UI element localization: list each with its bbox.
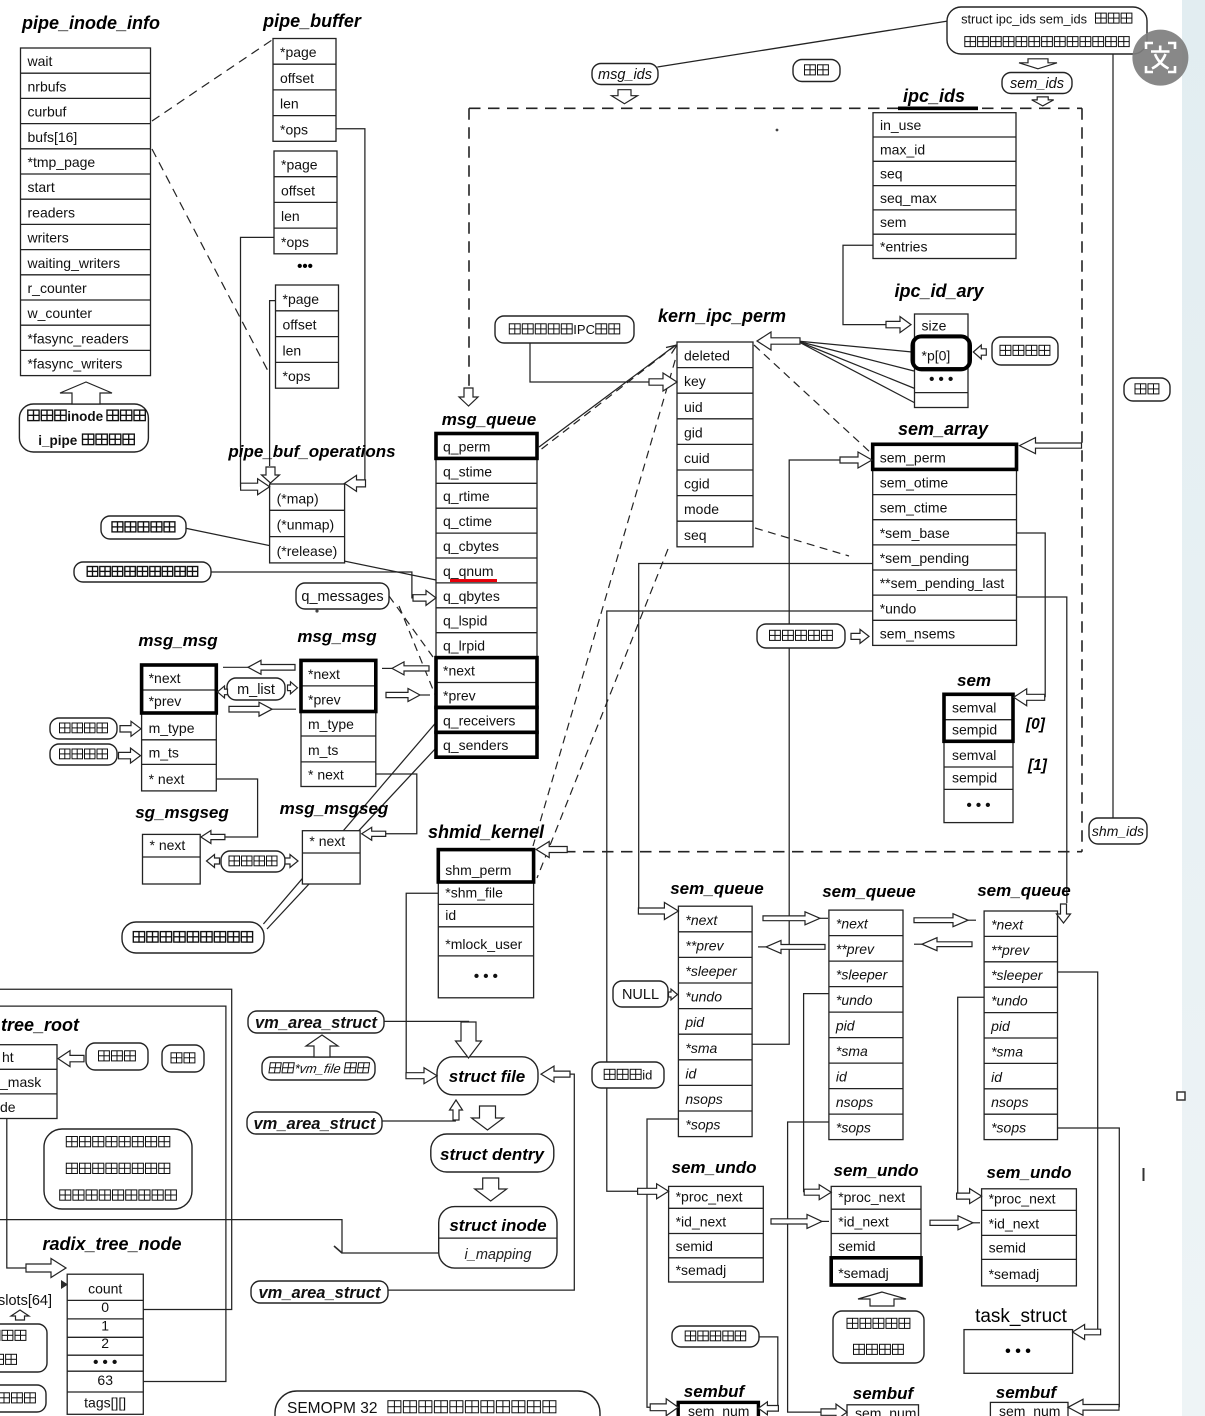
svg-text:q_qnum: q_qnum: [443, 563, 494, 579]
svg-text:kern_ipc_perm: kern_ipc_perm: [658, 306, 786, 326]
bubble SEMOPM note: [275, 1391, 600, 1416]
wire msg_msg2 next to msg_msgseg: [376, 774, 417, 834]
svg-text:offset: offset: [283, 317, 317, 333]
svg-text:id: id: [685, 1065, 697, 1081]
bubble page note: [44, 1129, 192, 1209]
svg-text:pipe_inode_info: pipe_inode_info: [21, 13, 160, 33]
red underline q_qnum: [450, 579, 497, 582]
wire shm_file to struct file: [406, 893, 438, 1075]
arrow into sembuf3: [1068, 1399, 1119, 1415]
svg-text:IPC: IPC: [573, 322, 595, 337]
wire sem pending chain: [639, 564, 873, 912]
wire sem undo chain: [607, 611, 873, 1191]
wire sem_pending_last to queue3: [1017, 597, 1067, 903]
svg-text:•••: •••: [297, 258, 313, 275]
bold rounded p0: [913, 336, 971, 369]
dashed kern to sem_array lower: [755, 528, 849, 556]
svg-text:sem_ctime: sem_ctime: [880, 500, 948, 516]
svg-text:curbuf: curbuf: [28, 104, 67, 120]
svg-text:struct ipc_ids sem_ids: struct ipc_ids sem_ids: [961, 11, 1087, 26]
svg-text:*proc_next: *proc_next: [676, 1188, 743, 1204]
svg-text:nsops: nsops: [836, 1094, 873, 1110]
svg-text:q_lspid: q_lspid: [443, 613, 487, 629]
dashed pipe bufs to buffer3: [152, 149, 268, 371]
svg-text:2: 2: [101, 1335, 109, 1351]
svg-text:*ops: *ops: [280, 121, 308, 137]
svg-text:slots[64]: slots[64]: [0, 1293, 52, 1309]
svg-text:_mask: _mask: [0, 1074, 42, 1090]
arrow into sem table: [1014, 689, 1045, 706]
bubble vm_area_struct 3: [251, 1281, 388, 1303]
svg-text:msg_msg: msg_msg: [138, 631, 218, 650]
svg-text:*undo: *undo: [685, 989, 722, 1005]
arrow file to dentry: [472, 1106, 504, 1130]
svg-text:bufs[16]: bufs[16]: [28, 129, 78, 145]
svg-text:• • •: • • •: [929, 371, 953, 388]
svg-text:* next: * next: [309, 833, 345, 849]
table pipe_buffer 1: [273, 39, 336, 142]
svg-text:pipe_buf_operations: pipe_buf_operations: [227, 442, 395, 461]
bubble shm_ids: [1089, 818, 1147, 844]
svg-text:semid: semid: [989, 1239, 1026, 1255]
table shmid_kernel: [438, 850, 533, 998]
arrow into sg_msgseg: [201, 831, 225, 844]
svg-text:*next: *next: [308, 666, 340, 682]
table sem_undo 1: [669, 1186, 764, 1282]
svg-text:nrbufs: nrbufs: [28, 78, 67, 94]
wire msg_ids to top bubble: [657, 21, 948, 67]
bubble leitong top: [793, 60, 840, 82]
svg-text:ipc_id_ary: ipc_id_ary: [894, 281, 984, 301]
small square mark: [1177, 1092, 1185, 1100]
svg-text:1: 1: [101, 1317, 109, 1333]
svg-text:*prev: *prev: [149, 693, 182, 709]
table sem: [944, 694, 1013, 822]
dashed box ids right edge: [1081, 108, 1083, 851]
svg-text:*shm_file: *shm_file: [445, 884, 503, 900]
svg-text:*semadj: *semadj: [838, 1265, 889, 1281]
svg-text:*id_next: *id_next: [989, 1215, 1040, 1231]
svg-text:key: key: [684, 373, 706, 389]
svg-text:q_receivers: q_receivers: [443, 712, 515, 728]
svg-text:tree_root: tree_root: [1, 1015, 80, 1035]
svg-text:**prev: **prev: [685, 937, 724, 953]
svg-text:*prev: *prev: [308, 692, 341, 708]
svg-text:sg_msgseg: sg_msgseg: [135, 803, 229, 822]
bubble leitong right: [1124, 378, 1170, 401]
arrow pending last into sq3: [1057, 904, 1071, 923]
dashed box ids bottom edge: [545, 851, 1082, 853]
svg-text:cgid: cgid: [684, 476, 710, 492]
arrow into msg_msgseg: [362, 827, 386, 840]
svg-text:q_stime: q_stime: [443, 463, 492, 479]
arrow into size: [886, 317, 911, 333]
bubble i_pipe note: [19, 404, 148, 452]
svg-text:sem: sem: [957, 671, 991, 690]
dashed kern to sem_perm: [754, 345, 871, 453]
table sem_queue 3: [984, 911, 1057, 1140]
bubble unique IPC: [495, 316, 634, 343]
svg-text:m_list: m_list: [237, 682, 275, 698]
svg-text:*page: *page: [283, 291, 320, 307]
arrow m_list left: [218, 686, 228, 698]
svg-text:offset: offset: [280, 70, 314, 86]
node struct file: [437, 1057, 538, 1095]
svg-text:deleted: deleted: [684, 348, 730, 364]
bubble rouxing shuzu: [992, 337, 1058, 365]
arrow m_list right: [288, 682, 298, 694]
arrow sem_ids down: [1032, 97, 1054, 106]
svg-text:ipc_ids: ipc_ids: [903, 86, 965, 106]
svg-text:SEMOPM 32: SEMOPM 32: [287, 1400, 377, 1416]
svg-text:*sleeper: *sleeper: [991, 967, 1044, 983]
bubble recv send process: [122, 922, 264, 953]
bubble q_messages: [296, 583, 389, 609]
svg-text:*fasync_writers: *fasync_writers: [28, 356, 123, 372]
svg-text:w_counter: w_counter: [27, 305, 93, 321]
arrow into sembuf1: [650, 1399, 678, 1416]
svg-text:sem_num: sem_num: [855, 1405, 916, 1416]
table msg_msg right: [301, 660, 376, 786]
svg-text:*sma: *sma: [685, 1040, 717, 1056]
arrow m_list long right: [272, 708, 296, 710]
svg-text:pipe_buffer: pipe_buffer: [262, 11, 362, 31]
svg-text:seq: seq: [880, 166, 903, 182]
svg-text:m_type: m_type: [149, 720, 195, 736]
wire top bubble to shm_ids: [1112, 54, 1114, 819]
svg-text:semval: semval: [952, 747, 996, 763]
svg-text:vm_area_struct: vm_area_struct: [259, 1284, 382, 1302]
svg-text:**prev: **prev: [991, 942, 1030, 958]
svg-text:[1]: [1]: [1027, 757, 1048, 774]
arrow into sem_queue1: [638, 903, 678, 920]
arrow msg_msg2 to queue: [420, 694, 430, 696]
svg-text:q_cbytes: q_cbytes: [443, 538, 499, 554]
arrow NULL arrow: [669, 989, 678, 1000]
wire ops2 down: [241, 237, 275, 486]
svg-text:readers: readers: [28, 204, 75, 220]
svg-text:sem_undo: sem_undo: [671, 1158, 756, 1177]
arrow sq2 to sq3: [968, 919, 976, 921]
wire sops2 to sembuf2: [788, 1122, 829, 1412]
svg-text:q_qbytes: q_qbytes: [443, 588, 500, 604]
bubble sem id: [592, 1062, 664, 1088]
bubble sem_ids: [1002, 73, 1072, 94]
svg-text:*mlock_user: *mlock_user: [445, 936, 522, 952]
table sem_queue 1: [678, 906, 752, 1136]
arrow semadj up: [858, 1292, 906, 1306]
dashed kern to shm_perm B: [537, 549, 668, 878]
svg-text:m_ts: m_ts: [149, 744, 179, 760]
svg-text:*id_next: *id_next: [676, 1214, 727, 1230]
svg-text:*page: *page: [281, 157, 318, 173]
svg-text:shmid_kernel: shmid_kernel: [428, 822, 545, 842]
svg-text:*p[0]: *p[0]: [922, 348, 951, 364]
dashed pipe bufs to buffer1: [152, 40, 272, 121]
bubble queue msg count: [101, 516, 186, 539]
wire sleeper3 to task_struct: [1058, 972, 1098, 1332]
svg-text:sem_queue: sem_queue: [822, 882, 916, 901]
svg-text:in_use: in_use: [880, 117, 921, 133]
svg-text:i_pipe: i_pipe: [38, 433, 78, 448]
svg-text:wait: wait: [27, 53, 53, 69]
svg-text:* next: * next: [149, 771, 185, 787]
svg-text:pid: pid: [835, 1018, 856, 1034]
svg-text:waiting_writers: waiting_writers: [27, 255, 121, 271]
arrow top bubble down: [1019, 59, 1057, 69]
svg-text:*id_next: *id_next: [838, 1214, 889, 1230]
arrow m_list long left: [223, 666, 248, 668]
svg-text:* next: * next: [150, 837, 186, 853]
arrow into ops right: [345, 475, 366, 491]
svg-text:msg_ids: msg_ids: [598, 67, 652, 83]
svg-text:struct inode: struct inode: [449, 1216, 546, 1235]
arrow queue to msg_msg2: [382, 667, 392, 669]
arrow sq3 to sq2: [914, 943, 922, 945]
table sembuf 1: [678, 1402, 758, 1416]
svg-text:*undo: *undo: [836, 992, 873, 1008]
speck: [776, 129, 779, 132]
wire sops1 to sembuf1: [647, 1119, 678, 1407]
arrow via vm_file up: [306, 1035, 338, 1057]
arrow into task_struct: [1073, 1325, 1101, 1340]
svg-text:id: id: [642, 1068, 652, 1083]
table sem_array: [873, 444, 1017, 645]
table pipe_buf_operations: [270, 484, 345, 563]
tick mark: [1143, 1168, 1145, 1181]
svg-text:*semadj: *semadj: [989, 1266, 1040, 1282]
arrow into sem_nsems: [851, 629, 869, 643]
svg-text:id: id: [991, 1069, 1003, 1085]
svg-text:r_counter: r_counter: [28, 280, 87, 296]
svg-text:nsops: nsops: [685, 1091, 722, 1107]
table sem_undo 2: [831, 1186, 921, 1285]
svg-text:*sma: *sma: [991, 1043, 1023, 1059]
svg-text:*next: *next: [685, 912, 718, 928]
svg-text:(*release): (*release): [277, 543, 338, 559]
wire undo2 down: [804, 994, 829, 1193]
arrow slots up: [11, 1310, 29, 1320]
svg-text:sem: sem: [880, 214, 906, 230]
table sem_undo 3: [982, 1189, 1077, 1286]
bubble tree depth: [86, 1043, 148, 1070]
arrow sq1 to sq2: [820, 917, 828, 919]
svg-text:*sops: *sops: [991, 1120, 1026, 1136]
arrow into key: [649, 373, 677, 391]
svg-text:radix_tree_node: radix_tree_node: [42, 1234, 181, 1254]
arrow su2 to su3: [973, 1222, 980, 1224]
svg-text:*vm_file: *vm_file: [293, 1061, 341, 1076]
svg-text:tags[][]: tags[][]: [84, 1394, 126, 1410]
svg-text:inode: inode: [67, 409, 103, 424]
svg-text:sem_undo: sem_undo: [986, 1163, 1071, 1182]
svg-text:*sma: *sma: [836, 1043, 868, 1059]
svg-text:*undo: *undo: [880, 600, 917, 616]
arrow into struct file right: [541, 1066, 570, 1082]
wire index bubble to sembuf1: [758, 1337, 777, 1408]
svg-text:msg_msgseg: msg_msgseg: [280, 799, 389, 818]
arrow into sem_perm: [840, 452, 872, 468]
table ipc_ids: [873, 113, 1016, 259]
svg-text:cuid: cuid: [684, 450, 710, 466]
wire vm_area3 to struct file: [388, 1074, 574, 1290]
table pipe_buffer 2: [274, 151, 337, 254]
svg-text:(*unmap): (*unmap): [277, 517, 335, 533]
svg-text:*next: *next: [443, 663, 475, 679]
arrow into sem_undo2: [804, 1185, 831, 1200]
wire radix slot0 loop: [0, 989, 232, 1309]
wire radix slot63 loop: [0, 1006, 226, 1381]
arrow into struct file left: [406, 1068, 437, 1084]
svg-text:start: start: [28, 179, 55, 195]
tick into radix_tree_node: [61, 1280, 68, 1289]
svg-text:sem_queue: sem_queue: [670, 879, 764, 898]
svg-text:q_rtime: q_rtime: [443, 488, 490, 504]
svg-text:sem_undo: sem_undo: [833, 1161, 918, 1180]
svg-text:ht: ht: [2, 1049, 14, 1065]
table pipe_buffer 3: [276, 285, 339, 388]
bubble vm_area_struct 2: [247, 1112, 382, 1134]
wire queue max bytes: [210, 572, 414, 598]
wire msg_queue to kern arrow: [539, 347, 673, 447]
node struct inode: [439, 1207, 557, 1269]
node struct dentry: [431, 1134, 554, 1172]
svg-text:msg_queue: msg_queue: [442, 410, 536, 429]
svg-text:de: de: [0, 1099, 16, 1115]
bubble via vm_file: [262, 1057, 375, 1080]
svg-text:len: len: [280, 96, 299, 112]
svg-text:NULL: NULL: [622, 987, 659, 1003]
svg-text:struct file: struct file: [449, 1067, 526, 1086]
svg-text:gid: gid: [684, 424, 703, 440]
svg-text:*page: *page: [280, 44, 317, 60]
svg-text:*next: *next: [836, 916, 869, 932]
svg-text:len: len: [283, 342, 302, 358]
arrow msg body right: [285, 855, 298, 868]
wire sem_perm from sma: [752, 460, 840, 1044]
dashed kern to q_perm: [539, 345, 676, 451]
dashed q_messages to next: [389, 596, 433, 657]
svg-text:*ops: *ops: [283, 368, 311, 384]
dashed kern to shm_perm A: [533, 347, 679, 846]
wire ops1 down: [336, 129, 365, 484]
bubble msg type: [50, 718, 117, 739]
svg-text:• • •: • • •: [966, 797, 990, 814]
svg-text:seq: seq: [684, 527, 707, 543]
fan lines p0 to kern_ipc_perm: [797, 341, 912, 352]
bubble vm_area_struct 1: [248, 1011, 384, 1033]
svg-text:(*map): (*map): [277, 490, 319, 506]
svg-text:size: size: [922, 318, 947, 334]
svg-text:*sops: *sops: [685, 1117, 720, 1133]
svg-text:*next: *next: [991, 916, 1024, 932]
svg-text:*fasync_readers: *fasync_readers: [28, 330, 129, 346]
svg-text:shm_perm: shm_perm: [445, 862, 511, 878]
svg-text:m_ts: m_ts: [308, 742, 338, 758]
dashed box ids top edge: [469, 107, 1082, 109]
arrow into pipe_inode_info: [60, 382, 112, 404]
svg-text:i_mapping: i_mapping: [465, 1247, 532, 1263]
svg-text:q_messages: q_messages: [301, 589, 383, 605]
svg-text:q_perm: q_perm: [443, 438, 490, 454]
wire sops3 to sembuf3: [1058, 1128, 1120, 1407]
arrow su1 to su2: [822, 1220, 829, 1222]
table task_struct: [964, 1330, 1073, 1374]
svg-text:sem_perm: sem_perm: [880, 449, 946, 465]
svg-text:shm_ids: shm_ids: [1092, 823, 1144, 839]
svg-text:max_id: max_id: [880, 141, 925, 157]
arrow vm1 into struct file: [456, 1022, 482, 1058]
table sem_queue 2: [829, 910, 903, 1140]
table sembuf 2: [847, 1405, 919, 1416]
svg-text:*proc_next: *proc_next: [838, 1189, 905, 1205]
wire rnode to radix_tree_node: [7, 1119, 26, 1268]
table radix_tree_node: [67, 1274, 143, 1414]
svg-text:sem_num: sem_num: [999, 1403, 1060, 1416]
bubble NULL: [613, 981, 668, 1007]
svg-text:uid: uid: [684, 399, 703, 415]
arrow msg_ids down: [612, 90, 638, 104]
arrow into kern top right: [757, 332, 800, 350]
svg-text:*sops: *sops: [836, 1120, 871, 1136]
svg-text:id: id: [836, 1069, 848, 1085]
arrow into ops left: [241, 479, 270, 495]
svg-text:semid: semid: [838, 1238, 875, 1254]
wire entries to ipc_id_ary: [843, 245, 886, 324]
gray translate icon: [1132, 30, 1188, 86]
table msg_msg left: [142, 665, 217, 791]
svg-text:semval: semval: [952, 700, 996, 716]
thick ipc_ids underline: [898, 107, 978, 111]
svg-text:sem_nsems: sem_nsems: [880, 625, 955, 641]
bubble page desc: [0, 1324, 47, 1372]
wire receive-send line2: [267, 748, 436, 929]
arrow into q_qbytes: [413, 590, 436, 605]
wire receive-send line1: [263, 723, 436, 925]
table msg_msgseg: [302, 831, 360, 884]
svg-text:len: len: [281, 208, 300, 224]
svg-text:writers: writers: [27, 230, 69, 246]
bubble msg_ids: [592, 64, 658, 85]
svg-text:*sem_pending: *sem_pending: [880, 550, 970, 566]
arrow msg type arrow: [120, 721, 141, 736]
bubble msg body: [221, 851, 285, 872]
arrow rouxing to p0: [973, 345, 986, 359]
svg-text:*next: *next: [149, 670, 181, 686]
svg-text:msg_msg: msg_msg: [297, 627, 377, 646]
svg-text:[0]: [0]: [1025, 716, 1046, 733]
svg-text:q_lrpid: q_lrpid: [443, 638, 485, 654]
svg-text:q_ctime: q_ctime: [443, 513, 492, 529]
svg-text:mode: mode: [684, 501, 719, 517]
svg-text:*prev: *prev: [443, 687, 476, 703]
dashed box ids left edge: [468, 108, 470, 388]
svg-text:* next: * next: [308, 767, 344, 783]
svg-text:offset: offset: [281, 182, 315, 198]
table pipe_inode_info: [21, 48, 151, 376]
svg-text:m_type: m_type: [308, 716, 354, 732]
svg-text:struct dentry: struct dentry: [440, 1145, 545, 1164]
svg-text:vm_area_struct: vm_area_struct: [254, 1115, 377, 1133]
wire msg_msg next to sg_msgseg: [216, 779, 257, 837]
svg-text:*sleeper: *sleeper: [836, 967, 889, 983]
table kern_ipc_perm: [677, 342, 753, 547]
bubble radix tree: [162, 1045, 204, 1072]
svg-text:sem_array: sem_array: [898, 419, 989, 439]
bubble msg size: [50, 744, 117, 765]
bubble null pointer: [0, 1385, 46, 1412]
svg-text:**prev: **prev: [836, 941, 875, 957]
